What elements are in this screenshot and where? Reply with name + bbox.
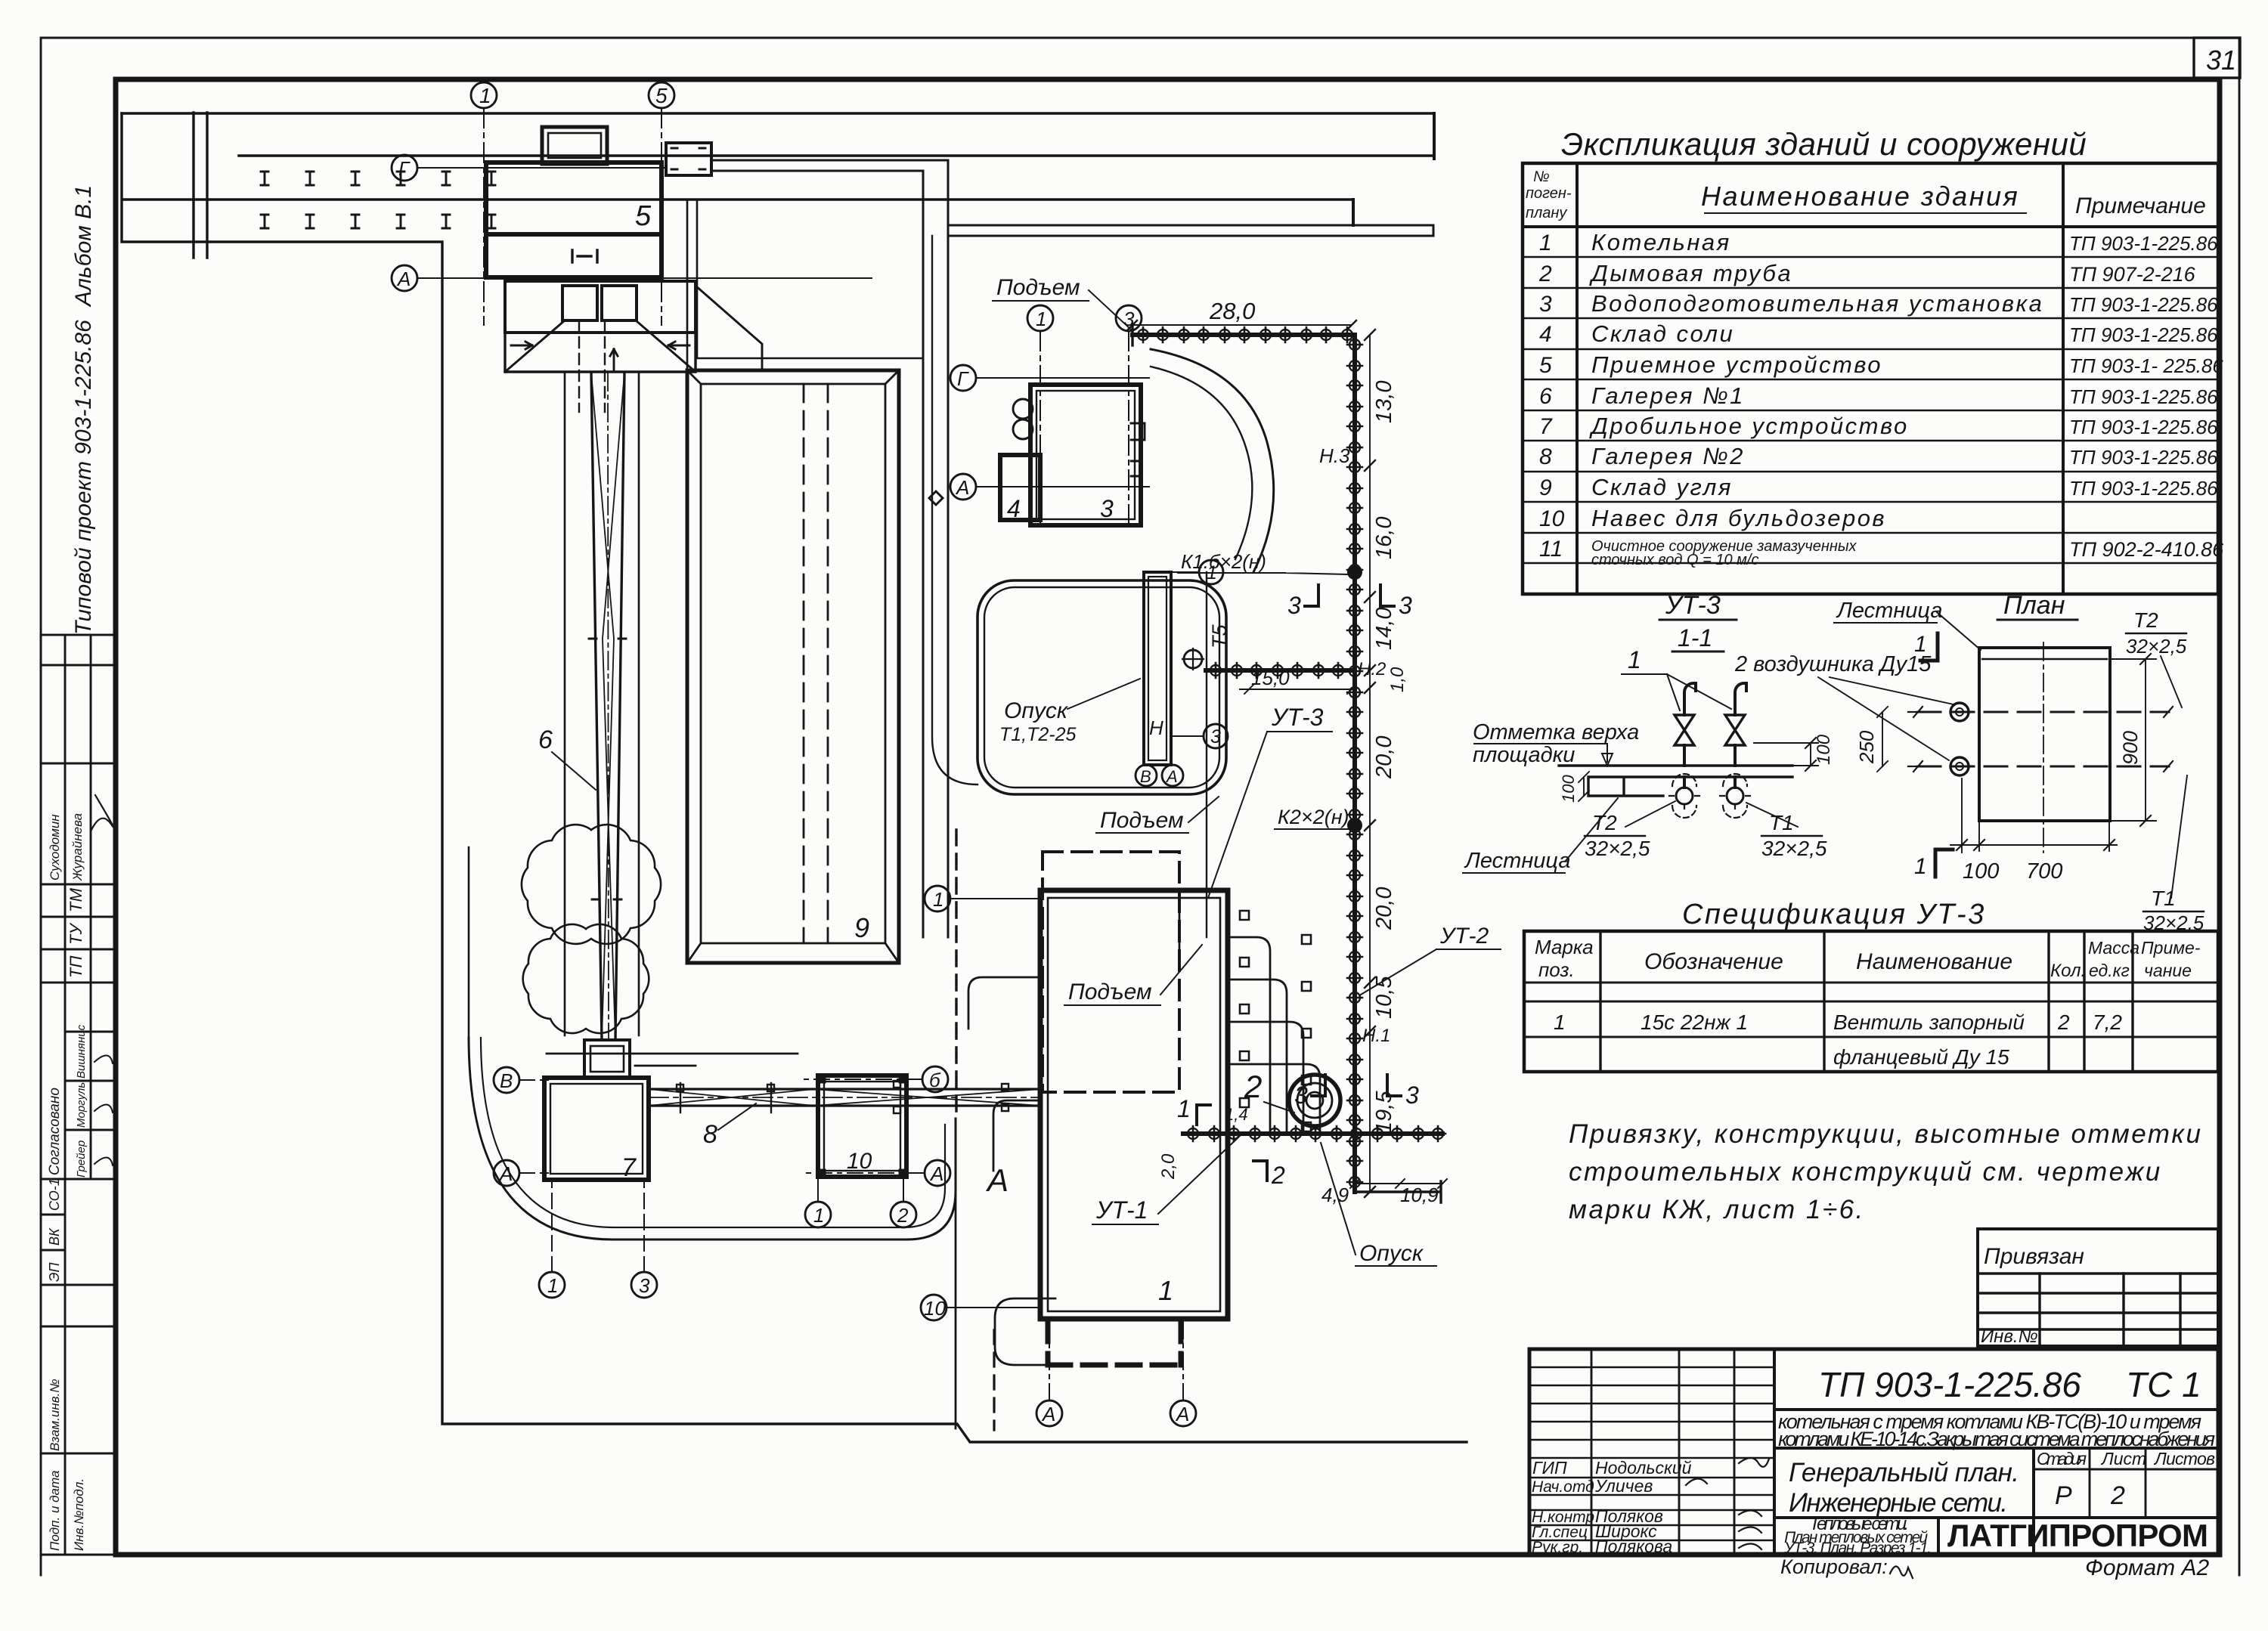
svg-text:Опуск: Опуск bbox=[1359, 1241, 1424, 1266]
svg-text:УТ-3: УТ-3 bbox=[1271, 704, 1324, 731]
svg-text:Склад соли: Склад соли bbox=[1591, 320, 1734, 347]
dim 100 700 bottom bbox=[1950, 821, 2117, 851]
svg-text:2: 2 bbox=[2110, 1481, 2125, 1510]
center axis of chamber bbox=[2043, 642, 2044, 853]
svg-text:Грейер: Грейер bbox=[75, 1140, 88, 1178]
axis circles below building 1 bbox=[1036, 1400, 1062, 1426]
svg-text:1: 1 bbox=[933, 888, 943, 911]
svg-text:900: 900 bbox=[2119, 731, 2142, 765]
road U around buildings 7-10 bbox=[469, 1038, 956, 1239]
svg-text:ед.кг: ед.кг bbox=[2089, 961, 2130, 980]
svg-text:10: 10 bbox=[924, 1297, 946, 1320]
svg-text:Т5: Т5 bbox=[1208, 624, 1231, 648]
svg-text:20,0: 20,0 bbox=[1372, 887, 1396, 930]
axis б and А right of building 10 bbox=[922, 1066, 948, 1092]
svg-text:Согласовано: Согласовано bbox=[47, 1088, 63, 1175]
ladder left line bbox=[1961, 778, 1963, 853]
svg-text:Дымовая труба: Дымовая труба bbox=[1589, 260, 1792, 286]
svg-text:15с 22нж 1: 15с 22нж 1 bbox=[1641, 1010, 1748, 1034]
gallery 6 end building bbox=[584, 1040, 630, 1078]
svg-text:Примечание: Примечание bbox=[2075, 193, 2206, 218]
svg-text:14,0: 14,0 bbox=[1372, 608, 1396, 650]
svg-text:Уличев: Уличев bbox=[1594, 1476, 1653, 1496]
utility line horizontal top bbox=[1132, 333, 1355, 337]
svg-text:Вишнянис: Вишнянис bbox=[75, 1024, 88, 1079]
svg-text:УТ-1: УТ-1 bbox=[1095, 1196, 1148, 1224]
axis circles В and А below channel bbox=[1136, 765, 1157, 786]
svg-text:10: 10 bbox=[847, 1149, 872, 1174]
svg-text:ТП 902-2-410.86: ТП 902-2-410.86 bbox=[2069, 538, 2224, 561]
axes above buildings 3 4 bbox=[1027, 305, 1053, 331]
svg-text:100: 100 bbox=[1559, 775, 1578, 803]
svg-text:3: 3 bbox=[639, 1274, 650, 1297]
hopper arrows bbox=[511, 342, 689, 372]
utility line flange circles vertical bbox=[1349, 339, 1360, 350]
svg-text:15,0: 15,0 bbox=[1251, 667, 1290, 689]
svg-text:Привязку, конструкции, высотны: Привязку, конструкции, высотные отметки bbox=[1569, 1119, 2202, 1149]
rail end bracket right bbox=[1353, 113, 1434, 225]
svg-text:1: 1 bbox=[813, 1204, 824, 1227]
svg-text:7,2: 7,2 bbox=[2093, 1010, 2122, 1034]
svg-text:ТП: ТП bbox=[67, 956, 85, 978]
svg-text:Рук.гр.: Рук.гр. bbox=[1532, 1539, 1583, 1556]
building 3 bbox=[1030, 385, 1141, 525]
svg-text:Подъем: Подъем bbox=[1100, 808, 1184, 833]
svg-text:Галерея №2: Галерея №2 bbox=[1591, 443, 1745, 469]
svg-text:Р: Р bbox=[2055, 1481, 2072, 1510]
svg-text:5: 5 bbox=[1539, 353, 1552, 378]
svg-text:ТП 903-1-225.86: ТП 903-1-225.86 bbox=[2069, 446, 2218, 469]
svg-text:Навес для бульдозеров: Навес для бульдозеров bbox=[1591, 505, 1886, 531]
svg-text:2: 2 bbox=[897, 1204, 909, 1227]
svg-text:3: 3 bbox=[1287, 592, 1301, 619]
svg-text:Суходомин: Суходомин bbox=[48, 814, 62, 880]
air vent valve riser x=2228 bbox=[1684, 683, 1696, 766]
site boundary left and bottom bbox=[122, 113, 1467, 1442]
dashed expansion zone bbox=[1043, 852, 1179, 1092]
svg-text:1-1: 1-1 bbox=[1678, 624, 1712, 651]
pipe support squares col 1 bbox=[1240, 911, 1249, 1107]
svg-text:строительных конструкций см.: строительных конструкций см. чертежи bbox=[1569, 1157, 2162, 1187]
tanks bbox=[1013, 419, 1033, 439]
road west of water loop bbox=[932, 236, 978, 785]
small building right of 5 bbox=[666, 143, 711, 175]
svg-text:10,9: 10,9 bbox=[1400, 1184, 1439, 1206]
svg-text:Спецификация УТ-3: Спецификация УТ-3 bbox=[1682, 899, 1986, 930]
water loop road outer bbox=[978, 580, 1226, 794]
site boundary top line bbox=[122, 112, 1434, 114]
axis circle 3 right of channel bbox=[1204, 724, 1228, 748]
svg-text:1: 1 bbox=[1539, 231, 1552, 255]
svg-text:20,0: 20,0 bbox=[1372, 736, 1396, 779]
boiler house building 1 bbox=[1040, 890, 1228, 1319]
svg-text:4,9: 4,9 bbox=[1321, 1184, 1349, 1206]
curved road east of building 3 bbox=[1151, 349, 1274, 572]
svg-text:Инв.№подл.: Инв.№подл. bbox=[72, 1478, 86, 1551]
right thin border bbox=[2239, 78, 2241, 1575]
svg-text:Н: Н bbox=[1149, 716, 1163, 739]
dashed pipes bbox=[1918, 712, 2169, 766]
axis 1 left top of building bbox=[925, 886, 950, 911]
railway rail 2 bbox=[124, 198, 1353, 200]
svg-text:6: 6 bbox=[538, 726, 553, 754]
svg-text:сточных вод Q = 10 м/с: сточных вод Q = 10 м/с bbox=[1591, 552, 1758, 568]
svg-text:Г: Г bbox=[957, 367, 969, 390]
spec table grid bbox=[1524, 931, 2218, 1072]
svg-text:Вентиль запорный: Вентиль запорный bbox=[1833, 1010, 2025, 1034]
svg-text:Т1,Т2-25: Т1,Т2-25 bbox=[999, 724, 1077, 745]
section flags 1 and 2 at bottom line bbox=[1197, 1105, 1210, 1125]
svg-text:ТП 903-1-225.86: ТП 903-1-225.86 bbox=[2069, 232, 2218, 255]
svg-text:2,0: 2,0 bbox=[1158, 1153, 1179, 1180]
utility line vertical bbox=[1352, 335, 1357, 1192]
svg-text:1: 1 bbox=[1177, 1095, 1191, 1122]
svg-text:2 воздушника Ду15: 2 воздушника Ду15 bbox=[1734, 652, 1932, 676]
svg-text:б: б bbox=[929, 1069, 941, 1091]
svg-text:6: 6 bbox=[1539, 384, 1552, 409]
svg-text:Обозначение: Обозначение bbox=[1644, 949, 1783, 974]
svg-text:Лист: Лист bbox=[2100, 1449, 2146, 1469]
svg-text:Типовой проект 903-1-225.86: Типовой проект 903-1-225.86 bbox=[71, 320, 96, 635]
svg-text:Т2: Т2 bbox=[2133, 608, 2158, 632]
svg-text:А: А bbox=[1041, 1403, 1055, 1425]
svg-text:1,0: 1,0 bbox=[1387, 667, 1408, 692]
svg-text:Подп. и дата: Подп. и дата bbox=[48, 1471, 62, 1551]
svg-text:А: А bbox=[1165, 767, 1178, 786]
svg-text:32×2,5: 32×2,5 bbox=[2126, 635, 2187, 658]
gallery 6 flanking road lines bbox=[565, 373, 639, 1035]
svg-text:ТП 903-1-225.86: ТП 903-1-225.86 bbox=[1818, 1365, 2081, 1404]
svg-text:Формат А2: Формат А2 bbox=[2085, 1555, 2209, 1580]
svg-text:Альбом В.1: Альбом В.1 bbox=[71, 185, 96, 308]
svg-text:2: 2 bbox=[1244, 1069, 1262, 1104]
svg-text:3: 3 bbox=[1210, 726, 1221, 747]
platform slab bbox=[1559, 766, 1792, 796]
sidebar co-1 vk el bbox=[41, 1179, 116, 1285]
svg-text:Лестница: Лестница bbox=[1836, 599, 1942, 623]
pipes exiting east wall bbox=[1228, 937, 1270, 1134]
svg-text:А: А bbox=[929, 1162, 943, 1185]
svg-text:Лестница: Лестница bbox=[1464, 849, 1570, 873]
svg-text:Приемное устройство: Приемное устройство bbox=[1591, 351, 1882, 378]
svg-text:10: 10 bbox=[1539, 506, 1565, 531]
utility line bottom horizontal bbox=[1183, 1131, 1442, 1136]
vent circles bbox=[1950, 703, 1969, 721]
svg-text:100: 100 bbox=[1814, 734, 1834, 765]
dim 250 bbox=[1877, 707, 1888, 772]
svg-text:УТ-2: УТ-2 bbox=[1439, 924, 1489, 949]
hopper below building 5 bbox=[505, 281, 696, 333]
svg-text:котлами КЕ-10-14с.Закрытая сис: котлами КЕ-10-14с.Закрытая система тепло… bbox=[1778, 1428, 2215, 1450]
dashed area boundary bbox=[955, 830, 957, 1119]
svg-text:ВК: ВК bbox=[47, 1227, 62, 1246]
svg-text:Журайнева: Журайнева bbox=[70, 813, 85, 881]
dim 15,0 bbox=[1240, 685, 1356, 694]
pipe support squares col 2 bbox=[1302, 935, 1311, 1131]
svg-text:Т2: Т2 bbox=[1592, 811, 1617, 834]
svg-text:марки КЖ, лист 1÷6.: марки КЖ, лист 1÷6. bbox=[1569, 1195, 1865, 1224]
water loop road inner bbox=[984, 587, 1219, 788]
sidebar lower gost cells bbox=[41, 1285, 116, 1555]
sidebar stamp table TM bbox=[41, 884, 116, 983]
svg-text:ТП 903-1-225.86: ТП 903-1-225.86 bbox=[2069, 323, 2218, 346]
chamber square bbox=[1979, 648, 2110, 821]
svg-text:ЭП: ЭП bbox=[47, 1262, 62, 1282]
svg-text:3: 3 bbox=[1100, 495, 1114, 522]
chimney 2 bbox=[1289, 1075, 1340, 1126]
svg-text:Взам.инв.№: Взам.инв.№ bbox=[48, 1379, 62, 1451]
svg-text:А: А bbox=[1175, 1403, 1189, 1425]
svg-text:ТП 903-1- 225.86: ТП 903-1- 225.86 bbox=[2069, 354, 2223, 377]
svg-text:2: 2 bbox=[1271, 1162, 1285, 1189]
svg-text:СО-1: СО-1 bbox=[47, 1178, 62, 1211]
svg-text:Генеральный план.: Генеральный план. bbox=[1789, 1458, 2019, 1487]
svg-text:плану: плану bbox=[1526, 205, 1567, 221]
sheet number box bbox=[2194, 38, 2240, 78]
building 4 bbox=[1000, 455, 1040, 520]
coal yard 9 bbox=[687, 370, 899, 963]
svg-text:А: А bbox=[955, 476, 969, 499]
air vent valve riser x=2295 bbox=[1735, 683, 1746, 766]
svg-text:3: 3 bbox=[1405, 1082, 1419, 1109]
svg-text:5: 5 bbox=[635, 200, 652, 232]
svg-text:Нодольский: Нодольский bbox=[1595, 1458, 1692, 1478]
svg-text:11: 11 bbox=[1539, 537, 1563, 562]
svg-text:Н.3: Н.3 bbox=[1319, 444, 1350, 467]
svg-text:ЛАТГИПРОПРОМ: ЛАТГИПРОПРОМ bbox=[1947, 1518, 2208, 1553]
svg-text:В: В bbox=[500, 1069, 513, 1092]
svg-text:Наименование: Наименование bbox=[1856, 949, 2012, 974]
svg-text:Опуск: Опуск bbox=[1004, 698, 1069, 723]
svg-text:32×2,5: 32×2,5 bbox=[1585, 837, 1650, 860]
heat line T1 T2-25 with flanges bbox=[1206, 668, 1353, 673]
svg-text:Склад угля: Склад угля bbox=[1591, 474, 1733, 500]
svg-text:Н.1: Н.1 bbox=[1362, 1026, 1390, 1046]
svg-text:А: А bbox=[985, 1162, 1009, 1198]
svg-text:31: 31 bbox=[2206, 45, 2236, 76]
svg-text:1: 1 bbox=[547, 1274, 558, 1297]
axes left of buildings 3 4 bbox=[950, 365, 976, 391]
svg-text:Масса: Масса bbox=[2088, 938, 2139, 958]
building 5 lower part bbox=[486, 234, 661, 277]
gallery 8 bbox=[649, 1089, 1040, 1106]
svg-text:фланцевый Ду 15: фланцевый Ду 15 bbox=[1833, 1045, 2009, 1069]
svg-text:Кол.: Кол. bbox=[2050, 961, 2086, 981]
explication table grid bbox=[1523, 163, 2218, 594]
signature grid bbox=[1773, 1349, 1776, 1555]
svg-text:УТ-3, План. Разрез 1-1.: УТ-3, План. Разрез 1-1. bbox=[1783, 1540, 1932, 1557]
svg-text:К1.б×2(н): К1.б×2(н) bbox=[1181, 550, 1266, 573]
road corner brackets west of building 1 bbox=[968, 977, 1040, 1029]
gate diamond on road bbox=[929, 491, 943, 505]
tree clouds bbox=[522, 825, 661, 944]
building 7 bbox=[544, 1078, 649, 1180]
T5 pipe line bbox=[1206, 572, 1207, 937]
svg-text:№: № bbox=[1533, 169, 1550, 185]
svg-text:5: 5 bbox=[655, 84, 668, 107]
svg-text:Галерея №1: Галерея №1 bbox=[1591, 382, 1745, 409]
section flag 1 bottom bbox=[1935, 850, 1953, 877]
svg-text:Листов: Листов bbox=[2153, 1449, 2215, 1469]
building 5 roof hatch bbox=[542, 127, 607, 164]
dim 900 right bbox=[2110, 659, 2156, 821]
svg-text:Отметка верха: Отметка верха bbox=[1473, 720, 1639, 744]
svg-text:Подъем: Подъем bbox=[1068, 980, 1152, 1004]
section flags 3-3 upper bbox=[1305, 585, 1318, 606]
axis 10 left bbox=[921, 1295, 947, 1320]
svg-text:100: 100 bbox=[1963, 859, 1999, 884]
road above coal yard bbox=[687, 200, 923, 370]
svg-text:ГИП: ГИП bbox=[1532, 1458, 1567, 1478]
dim chain vertical bbox=[1369, 335, 1371, 1192]
svg-text:3: 3 bbox=[1399, 592, 1412, 619]
svg-text:Нач.отд: Нач.отд bbox=[1532, 1478, 1594, 1496]
building 10 bbox=[818, 1075, 906, 1177]
svg-text:32×2,5: 32×2,5 bbox=[1761, 837, 1827, 860]
svg-text:Инв.№: Инв.№ bbox=[1981, 1326, 2038, 1347]
svg-text:9: 9 bbox=[1539, 475, 1552, 500]
axis Г left bbox=[392, 155, 417, 181]
title rows bbox=[1774, 1408, 2218, 1411]
svg-text:ТУ: ТУ bbox=[67, 923, 85, 945]
sidebar stamp table soglasovano bbox=[41, 983, 116, 1179]
svg-text:1: 1 bbox=[1554, 1010, 1566, 1034]
svg-text:ТП 903-1-225.86: ТП 903-1-225.86 bbox=[2069, 477, 2218, 500]
axis circle 1 top bbox=[471, 82, 497, 108]
svg-text:Копировал:: Копировал: bbox=[1780, 1555, 1888, 1578]
svg-text:1: 1 bbox=[1158, 1275, 1173, 1306]
svg-text:поген-: поген- bbox=[1526, 185, 1572, 202]
svg-text:Полякова: Полякова bbox=[1595, 1537, 1672, 1556]
svg-text:ТП 903-1-225.86: ТП 903-1-225.86 bbox=[2069, 293, 2218, 316]
dim 28,0 bbox=[1132, 324, 1352, 326]
section flag 1 top bbox=[1920, 633, 1938, 661]
svg-text:28,0: 28,0 bbox=[1209, 298, 1255, 324]
svg-text:ТП 907-2-216: ТП 907-2-216 bbox=[2069, 263, 2196, 286]
svg-text:1: 1 bbox=[1036, 308, 1046, 330]
svg-text:8: 8 bbox=[1539, 444, 1552, 469]
svg-text:1,4: 1,4 bbox=[1225, 1105, 1248, 1124]
rail ties row 1 bbox=[261, 172, 495, 185]
svg-text:площадки: площадки bbox=[1473, 743, 1575, 767]
railway break symbol bbox=[194, 113, 207, 258]
svg-text:Г: Г bbox=[398, 157, 411, 180]
svg-text:9: 9 bbox=[854, 912, 869, 943]
axis circle 1 at channel top bbox=[1199, 560, 1223, 584]
svg-text:Привязан: Привязан bbox=[1984, 1244, 2084, 1269]
svg-text:Моргуль: Моргуль bbox=[75, 1082, 88, 1128]
building 5 door marks bbox=[572, 250, 597, 262]
svg-text:Дробильное устройство: Дробильное устройство bbox=[1589, 413, 1909, 439]
svg-text:Водоподготовительная установка: Водоподготовительная установка bbox=[1591, 290, 2043, 317]
gallery 6 conveyor bbox=[591, 373, 624, 1040]
dashed extension below bbox=[1048, 1319, 1181, 1365]
svg-text:Подъем: Подъем bbox=[996, 275, 1080, 300]
heat line flange circles bbox=[1210, 665, 1221, 676]
svg-text:Стадия: Стадия bbox=[2037, 1449, 2087, 1469]
svg-text:8: 8 bbox=[703, 1120, 717, 1149]
dim 100 right bbox=[1754, 743, 1818, 766]
svg-text:16,0: 16,0 bbox=[1372, 517, 1396, 559]
rail ties row 2 bbox=[261, 215, 495, 228]
svg-text:7: 7 bbox=[1539, 414, 1553, 439]
svg-text:поз.: поз. bbox=[1538, 958, 1575, 981]
svg-text:Приме-: Приме- bbox=[2141, 938, 2201, 958]
svg-text:Марка: Марка bbox=[1535, 936, 1594, 958]
svg-text:1: 1 bbox=[1914, 632, 1927, 657]
svg-text:1: 1 bbox=[479, 84, 491, 107]
svg-text:3: 3 bbox=[1539, 292, 1552, 317]
axis А left bbox=[392, 265, 417, 291]
svg-text:А: А bbox=[396, 268, 411, 290]
svg-text:1: 1 bbox=[1914, 854, 1927, 879]
svg-text:700: 700 bbox=[2026, 859, 2062, 884]
road hook from building 5 to east bbox=[711, 160, 948, 937]
svg-text:4: 4 bbox=[1007, 495, 1021, 522]
svg-text:13,0: 13,0 bbox=[1372, 381, 1396, 423]
svg-text:Наименование здания: Наименование здания bbox=[1701, 181, 2019, 212]
utility line flange circles bottom bbox=[1188, 1128, 1198, 1139]
section flags 3-3 lower bbox=[1312, 1075, 1325, 1096]
sidebar stamp table upper bbox=[41, 635, 116, 884]
svg-text:ТМ: ТМ bbox=[67, 887, 85, 912]
road C west of building 1 lower bbox=[995, 1298, 1055, 1365]
UT-3 channel bbox=[1144, 572, 1171, 765]
svg-text:чание: чание bbox=[2144, 961, 2192, 980]
svg-text:7: 7 bbox=[621, 1153, 637, 1182]
svg-text:ТС 1: ТС 1 bbox=[2126, 1365, 2201, 1404]
building 5 receiving house upper bbox=[486, 162, 661, 234]
svg-text:1: 1 bbox=[1628, 646, 1641, 673]
svg-text:2: 2 bbox=[1538, 262, 1552, 286]
svg-text:Котельная: Котельная bbox=[1591, 229, 1731, 255]
svg-text:Н.2: Н.2 bbox=[1358, 659, 1386, 679]
svg-text:В: В bbox=[1140, 767, 1151, 786]
svg-text:К2×2(н): К2×2(н) bbox=[1278, 806, 1349, 828]
dim 100 left bbox=[1579, 772, 1589, 801]
axes around buildings 7 and 10 bbox=[494, 1067, 519, 1093]
railway rail 1 bbox=[239, 154, 1434, 156]
svg-text:4: 4 bbox=[1539, 322, 1552, 347]
svg-text:ТП 903-1-225.86: ТП 903-1-225.86 bbox=[2069, 385, 2218, 408]
svg-text:250: 250 bbox=[1855, 730, 1878, 764]
svg-text:10,5: 10,5 bbox=[1372, 976, 1396, 1019]
svg-text:2: 2 bbox=[2057, 1010, 2070, 1034]
svg-text:ТП 903-1-225.86: ТП 903-1-225.86 bbox=[2069, 416, 2218, 438]
svg-text:Экспликация зданий и сооруж: Экспликация зданий и сооружений bbox=[1561, 126, 2087, 162]
axis circle 5 top bbox=[649, 82, 674, 108]
utility line flange circles top bbox=[1138, 330, 1148, 340]
